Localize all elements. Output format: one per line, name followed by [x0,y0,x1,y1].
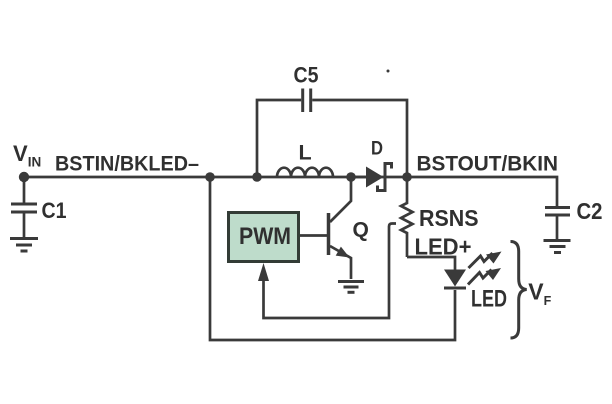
wire main input rail [24,176,407,179]
node VIN [19,172,29,182]
ground (C2) [544,241,571,253]
svg-text:PWM: PWM [239,223,291,250]
svg-text:LED: LED [471,286,507,313]
transistor Q collector wire [330,177,351,222]
node A (feedback tap on input rail) [205,172,215,182]
transistor Q emitter arrow [336,247,350,258]
wire output rail to C2 [407,177,557,206]
PWM block [229,213,299,262]
diode D schottky cathode bar [378,164,392,191]
brace VF [511,242,527,339]
svg-text:BSTOUT/BKIN: BSTOUT/BKIN [417,153,559,176]
capacitor C1 [11,177,37,237]
svg-text:BSTIN/BKLED–: BSTIN/BKLED– [55,153,199,176]
svg-text:VIN: VIN [13,141,41,170]
LED emission arrow lower [468,270,492,285]
svg-text:VF: VF [528,279,551,309]
feedback arrow into PWM [258,263,269,281]
transistor Q emitter [330,246,351,279]
diode D (schottky) anode wire [355,176,366,179]
diode D triangle [366,167,384,188]
svg-text:C1: C1 [42,198,67,223]
svg-text:C5: C5 [294,63,319,88]
capacitor C5 branch wires [257,100,301,177]
ground (C1) [10,239,38,252]
svg-text:L: L [299,141,312,165]
svg-text:RSNS: RSNS [419,205,479,231]
wire RSNS to LED anode [407,257,455,270]
svg-text:LED+: LED+ [415,234,472,260]
ground (Q emitter) [338,282,364,293]
LED emission arrow upper [469,253,493,268]
wire outer feedback loop (rail to LED cathode) [210,177,455,340]
feedback sense wire [264,224,397,319]
capacitor C5 plates [301,89,304,113]
transistor Q base wire [299,234,327,237]
inductor L [277,168,333,177]
LED diode triangle [444,270,466,287]
svg-text:D: D [371,138,383,160]
svg-text:Q: Q [353,219,369,242]
transistor Q base bar [327,213,331,255]
node D (output node) [402,172,412,182]
LED cathode bar [444,287,466,290]
capacitor C2 [545,208,570,240]
svg-text:C2: C2 [577,198,603,224]
resistor RSNS [401,181,413,257]
node B (C5 branch tap) [252,172,262,182]
node C (switch node) [346,172,356,182]
